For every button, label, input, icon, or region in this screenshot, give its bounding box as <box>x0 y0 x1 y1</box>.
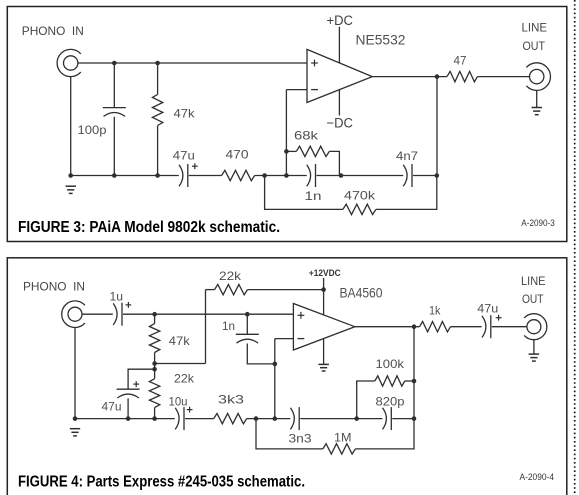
capacitor C3 1n (fig3) <box>307 165 311 187</box>
ground line out (fig4) <box>529 353 540 355</box>
wire output (fig3) <box>372 76 447 78</box>
wire 47k lower lead (fig3) <box>157 126 159 176</box>
wire 47u to line out (fig4) <box>492 326 527 328</box>
wire phono shield drop (fig4) <box>74 328 76 419</box>
connector J4 line out (fig4) <box>527 320 541 334</box>
wire 1n to 4n7 (fig3) <box>317 175 404 177</box>
wire inverting riser (fig4) <box>274 339 276 419</box>
wire 47k upper lead (fig3) <box>157 63 159 94</box>
node 1n tap (fig4) <box>245 312 250 317</box>
node bias/47u (fig4) <box>152 367 157 372</box>
svg-text:LINE: LINE <box>521 274 546 288</box>
wire 4n7 to feedback drop (fig3) <box>413 175 437 177</box>
polarity + of C2 <box>192 165 198 167</box>
svg-text:OUT: OUT <box>523 39 546 53</box>
svg-text:BA4560: BA4560 <box>340 285 383 300</box>
node 820p/riser (fig4) <box>412 416 417 421</box>
ground line out (fig3) <box>532 107 543 109</box>
svg-text:LINE: LINE <box>522 21 548 35</box>
ground phono (fig4) <box>70 428 80 430</box>
wire line out shield stub (fig4) <box>533 340 535 354</box>
svg-text:47k: 47k <box>174 107 196 121</box>
svg-text:PHONO IN: PHONO IN <box>22 24 84 38</box>
svg-text:820p: 820p <box>376 395 405 409</box>
wire 820p to out riser (fig4) <box>392 418 414 420</box>
connector J2 line out (fig3) <box>530 69 544 83</box>
svg-text:10u: 10u <box>169 394 188 408</box>
resistor R4 470k <box>343 204 376 214</box>
op-amp U1 - marking <box>311 89 318 91</box>
op-amp U1 NE5532 triangle <box>307 49 372 102</box>
svg-text:68k: 68k <box>294 129 319 143</box>
svg-text:47u: 47u <box>173 148 195 162</box>
wire 22k lower lead (fig4) <box>154 408 156 419</box>
svg-text:−DC: −DC <box>327 115 354 130</box>
svg-text:1n: 1n <box>305 189 322 203</box>
wire inverting input (fig4) <box>275 338 294 340</box>
wire 47k upper lead (fig4) <box>154 314 156 323</box>
resistor R8 3k3 <box>214 413 247 423</box>
svg-text:1k: 1k <box>429 303 441 317</box>
wire feedback riser (fig4) <box>413 327 415 419</box>
resistor R7 22k vertical (fig4) <box>149 379 159 408</box>
figure 4 frame <box>7 258 567 495</box>
node 1n/inv riser (fig4) <box>273 362 278 367</box>
polarity + of C5 <box>126 304 132 306</box>
svg-text:47u: 47u <box>477 301 498 315</box>
op-amp U2 - marking <box>298 338 305 340</box>
wire 1u to opamp + (fig4) <box>123 313 293 315</box>
wire 470k loop left (fig3) <box>265 176 343 210</box>
wire 1M loop right (fig4) <box>355 419 414 449</box>
wire phono to 1u (fig4) <box>82 313 113 315</box>
svg-text:22k: 22k <box>174 371 195 385</box>
svg-text:47k: 47k <box>169 334 191 348</box>
wire 100p lower lead (fig3) <box>113 117 115 176</box>
node feedback bottom (fig3) <box>435 173 440 178</box>
svg-text:100k: 100k <box>376 357 406 371</box>
wire +12VDC rail upper (fig4) <box>323 278 325 315</box>
ground op-amp (fig4) <box>318 363 329 365</box>
wire line out shield stub (fig3) <box>536 90 538 107</box>
node 68k left (fig3) <box>284 149 289 154</box>
capacitor C11 47u out electrolytic <box>482 316 486 338</box>
svg-text:47: 47 <box>454 53 467 67</box>
svg-text:1M: 1M <box>334 430 352 444</box>
wire phono shield drop (fig3) <box>70 77 72 176</box>
polarity + of C6 <box>133 383 139 385</box>
node shield/bus (fig3) <box>68 173 73 178</box>
wire 68k left lead (fig3) <box>286 150 296 152</box>
node 68k/4n7 (fig3) <box>339 173 344 178</box>
capacitor C7 10u electrolytic <box>175 408 179 430</box>
polarity + of C7 <box>187 409 193 411</box>
svg-text:NE5532: NE5532 <box>356 33 406 48</box>
capacitor C8 3n3 <box>290 408 294 430</box>
resistor R5 47 <box>447 71 478 81</box>
node input bias (fig4) <box>152 312 157 317</box>
svg-text:OUT: OUT <box>522 292 544 306</box>
svg-text:22k: 22k <box>219 269 242 283</box>
capacitor C6 47u electrolytic (fig4) <box>117 388 140 390</box>
node 1M tap (fig4) <box>254 416 259 421</box>
svg-text:100p: 100p <box>78 123 107 137</box>
wire 22ktop left lead (fig4) <box>206 289 215 291</box>
node input/47k (fig3) <box>155 61 160 66</box>
op-amp U1 + marking <box>311 62 318 64</box>
node 22k/bus (fig4) <box>152 416 157 421</box>
wire 100k right lead (fig4) <box>405 380 414 382</box>
resistor R9 22k top <box>215 284 248 294</box>
svg-text:PHONO IN: PHONO IN <box>23 279 85 293</box>
svg-text:470: 470 <box>226 148 249 162</box>
resistor R2 470 <box>222 170 255 180</box>
node 100k/riser (fig4) <box>412 379 417 384</box>
polarity + of C11 <box>496 317 502 319</box>
wire 1M loop left (fig4) <box>256 419 323 449</box>
wire +DC stub <box>338 27 340 63</box>
wire 3k3 to 3n3 (fig4) <box>247 418 291 420</box>
wire bias link (fig4) <box>155 363 206 365</box>
wire 470 to 1n (fig3) <box>255 175 307 177</box>
resistor R1 47k (fig3) <box>152 94 162 125</box>
resistor R10 1k <box>420 322 451 332</box>
wire 10u to 3k3 (fig4) <box>185 418 214 420</box>
wire 1k to 47u (fig4) <box>451 326 482 328</box>
op-amp U2 BA4560 triangle <box>293 304 354 351</box>
wire output (fig4) <box>355 326 420 328</box>
wire +12VDC rail lower / V- to ground (fig4) <box>323 339 325 365</box>
svg-text:FIGURE 4: Parts Express #245-0: FIGURE 4: Parts Express #245-035 schemat… <box>18 473 305 490</box>
wire top bus (fig3) <box>78 62 307 64</box>
wire 100k left branch (fig4) <box>357 381 375 419</box>
wire 22k top riser (fig4) <box>205 290 207 364</box>
node inv riser/bus (fig4) <box>273 416 278 421</box>
node 100p/bus (fig3) <box>112 173 117 178</box>
svg-text:47u: 47u <box>102 399 122 413</box>
wire -DC stub <box>338 90 340 116</box>
wire ground bus (fig4) <box>75 418 175 420</box>
svg-text:FIGURE 3: PAiA Model 9802k sch: FIGURE 3: PAiA Model 9802k schematic. <box>18 219 280 236</box>
svg-text:1u: 1u <box>110 289 124 303</box>
svg-text:3n3: 3n3 <box>289 431 312 445</box>
wire 68k right lead (fig3) <box>329 151 339 175</box>
wire 47u branch (fig4) <box>128 369 155 389</box>
node output/feedback (fig3) <box>435 74 440 79</box>
connector J1 phono in (fig3) <box>63 56 77 70</box>
svg-text:4n7: 4n7 <box>396 149 418 163</box>
wire inverting riser (fig3) <box>285 90 287 176</box>
node 22ktop/+12V (fig4) <box>321 287 326 292</box>
wire 47u to 470 (fig3) <box>189 175 222 177</box>
node shield/bus (fig4) <box>73 416 78 421</box>
node A 470k tap (fig3) <box>262 173 267 178</box>
wire feedback drop (fig3) <box>436 77 438 176</box>
figure 3 frame <box>7 7 567 242</box>
op-amp U2 + marking <box>298 314 305 316</box>
capacitor C1 100p (fig3) <box>103 107 126 109</box>
wire 47k to 22k (fig4) <box>154 353 156 379</box>
node 100k tap (fig4) <box>354 416 359 421</box>
node input/100p (fig3) <box>112 61 117 66</box>
node bias/22ktop (fig4) <box>152 361 157 366</box>
svg-text:A-2090-4: A-2090-4 <box>520 472 555 482</box>
svg-text:A-2090-3: A-2090-3 <box>521 218 555 228</box>
ground phono (fig3) <box>66 185 77 187</box>
svg-text:3k3: 3k3 <box>218 392 244 406</box>
node output/feedback (fig4) <box>412 324 417 329</box>
wire 1n lower link (fig4) <box>247 344 274 364</box>
wire 3n3 to 820p (fig4) <box>300 418 382 420</box>
svg-text:+DC: +DC <box>327 13 354 28</box>
svg-text:470k: 470k <box>344 189 376 203</box>
wire 100p upper lead (fig3) <box>113 63 115 108</box>
svg-text:+12VDC: +12VDC <box>309 268 341 278</box>
wire 470k loop right (fig3) <box>376 176 437 210</box>
capacitor C9 820p <box>383 408 387 430</box>
capacitor C10 1n (fig4) <box>236 333 259 335</box>
resistor R6 47k (fig4) <box>149 324 159 353</box>
wire 47 to line out (fig3) <box>478 76 530 78</box>
resistor R11 100k <box>375 376 405 386</box>
svg-text:1n: 1n <box>222 319 235 333</box>
resistor R12 1M <box>323 444 356 454</box>
wire ground bus (fig3) <box>71 175 179 177</box>
wire 22ktop to +12V (fig4) <box>248 289 324 291</box>
node 47u/bus (fig4) <box>126 416 131 421</box>
capacitor C2 47u electrolytic (fig3) <box>179 165 183 187</box>
connector J3 phono in (fig4) <box>68 307 82 321</box>
node B inv tap (fig3) <box>284 173 289 178</box>
resistor R3 68k <box>296 146 329 156</box>
wire inverting input (fig3) <box>286 89 307 91</box>
wire 47u lower lead (fig4) <box>127 398 129 418</box>
page edge dotted line <box>574 0 576 495</box>
capacitor C4 4n7 <box>403 165 407 187</box>
node 47k/bus (fig3) <box>155 173 160 178</box>
capacitor C5 1u electrolytic <box>113 303 117 325</box>
wire 1n upper lead (fig4) <box>246 314 248 334</box>
